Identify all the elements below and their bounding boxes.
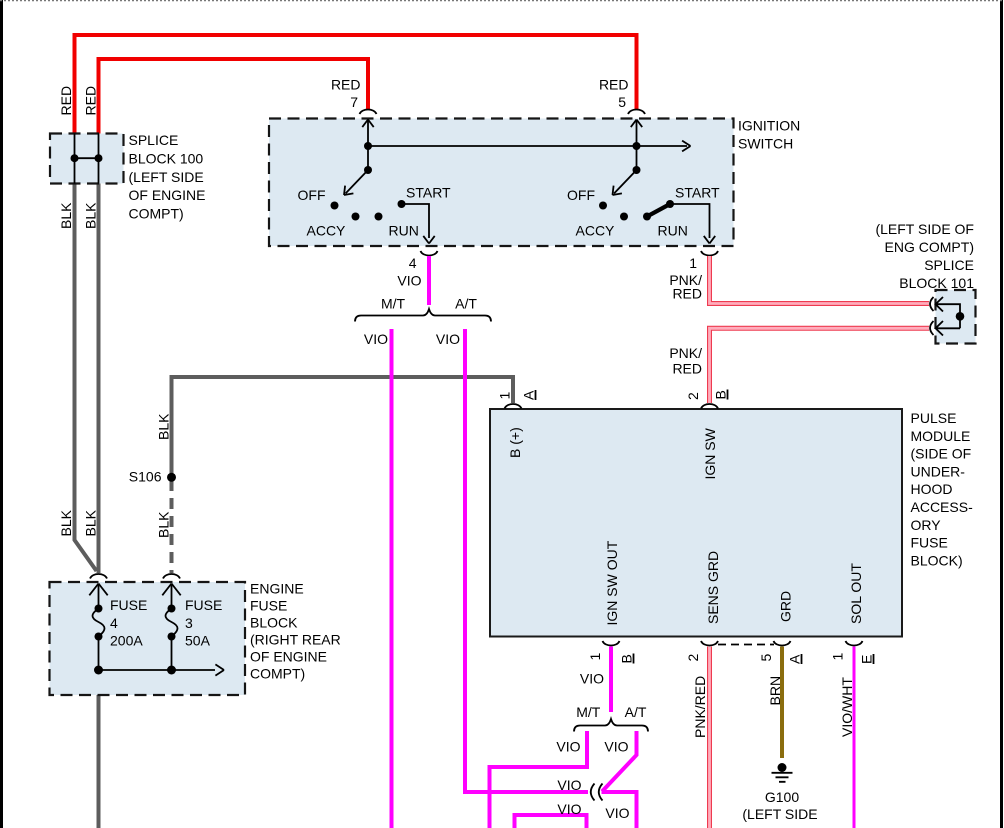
wire RED battery feed to ignition pin 7 [99,59,369,134]
svg-text:SWITCH: SWITCH [738,136,793,152]
svg-text:BLK: BLK [156,511,172,538]
svg-text:4: 4 [409,255,417,271]
ignition switch box [269,119,734,247]
svg-text:RED: RED [599,77,629,93]
connector module pin 1 (SOL OUT) [846,641,863,646]
svg-text:RUN: RUN [389,223,419,239]
svg-text:A/T: A/T [625,704,647,720]
svg-text:E: E [859,655,875,664]
wire VIO A/T branch down and right to inline connector [465,329,588,792]
fuse block output bus arrow [99,669,216,671]
svg-text:M/T: M/T [576,704,601,720]
svg-text:RUN: RUN [658,223,688,239]
labels M/T A/T upper [381,296,477,312]
svg-text:RED: RED [672,286,702,302]
connector module pin 5 (GRD) [774,641,791,646]
svg-text:FUSE: FUSE [911,535,948,551]
svg-text:VIO: VIO [557,801,581,817]
wire BLK fuse block output to bottom [97,672,101,828]
svg-text:S106: S106 [129,469,162,485]
svg-text:3: 3 [185,615,193,631]
svg-text:(LEFT SIDE: (LEFT SIDE [129,169,204,185]
labels left switch positions [298,185,452,239]
svg-text:ACCESS-: ACCESS- [911,499,974,515]
svg-text:50A: 50A [185,633,211,649]
brace M/T A/T lower [574,719,648,732]
svg-text:SPLICE: SPLICE [129,132,179,148]
svg-text:7: 7 [350,94,358,110]
labels right switch positions [567,185,720,239]
svg-text:B: B [713,390,729,399]
svg-text:BLOCK 101: BLOCK 101 [899,275,974,291]
connector ignition pin 5 [628,110,645,115]
svg-text:(RIGHT REAR: (RIGHT REAR [250,632,341,648]
svg-text:SENS GRD: SENS GRD [705,551,721,624]
fuse 4 200A [89,584,107,675]
svg-text:A: A [521,390,537,400]
svg-text:VIO/WHT: VIO/WHT [839,677,855,737]
svg-text:SPLICE: SPLICE [924,257,974,273]
svg-text:BLK: BLK [83,202,99,229]
connector module pin 2 (SENS GRD) [701,641,718,646]
svg-text:RED: RED [58,86,74,116]
svg-text:BLOCK 100: BLOCK 100 [129,150,204,166]
splice block 101 [930,290,976,344]
svg-text:PNK/: PNK/ [669,345,702,361]
svg-text:SOL OUT: SOL OUT [848,563,864,624]
label RED 5 [599,77,629,111]
connector ignition pin 1 [701,251,718,256]
svg-text:A/T: A/T [455,296,477,312]
inline connector (( [591,784,603,801]
svg-text:2: 2 [685,392,701,400]
svg-text:VIO: VIO [364,331,388,347]
svg-text:A: A [787,654,803,664]
svg-text:FUSE: FUSE [250,598,287,614]
svg-text:START: START [675,185,720,201]
svg-text:VIO: VIO [604,739,628,755]
label SPLICE BLOCK 100 [129,132,206,222]
connector ignition pin 4 [421,251,438,256]
svg-text:1: 1 [497,392,513,400]
connector fuse 4 [90,574,107,579]
svg-text:5: 5 [758,654,774,662]
switch common bus with arrow [368,145,687,147]
svg-text:BLK: BLK [83,509,99,536]
engine fuse block box [50,582,246,695]
wire VIO lower A/T branch diagonal to inline connector [602,731,637,792]
svg-text:START: START [406,185,451,201]
connector fuse 3 [163,574,180,579]
svg-text:B: B [619,654,635,663]
svg-text:RED: RED [83,86,99,116]
svg-text:200A: 200A [110,633,143,649]
svg-text:1: 1 [830,653,846,661]
svg-text:VIO: VIO [557,777,581,793]
wire PNK/RED splice block 101 to pulse module pin B [710,328,930,403]
ground G100 [772,763,793,782]
label SPLICE BLOCK 101 [875,221,974,291]
label PNK/RED lower [669,345,702,377]
wire BLK splice100 right to fuse 4 [97,184,101,574]
label RED 7 [331,77,361,111]
svg-text:(LEFT SIDE OF: (LEFT SIDE OF [875,221,974,237]
svg-text:VIO: VIO [397,273,421,289]
svg-text:(SIDE OF: (SIDE OF [911,446,972,462]
dashed connector link pin2-pin5 [718,644,774,646]
svg-text:4: 4 [110,615,118,631]
label G100 (LEFT SIDE [742,789,817,822]
fuse 3 50A [162,584,180,675]
wire BLK dashed S106 to fuse 3 [170,480,174,573]
svg-text:VIO: VIO [436,331,460,347]
svg-text:B (+): B (+) [507,427,523,458]
pulse module box [490,409,902,637]
label IGNITION SWITCH [738,118,800,152]
svg-text:BLOCK: BLOCK [250,615,298,631]
svg-text:5: 5 [618,94,626,110]
svg-text:HOOD: HOOD [911,481,953,497]
frame border left [0,0,3,828]
brace M/T A/T upper [355,309,491,322]
svg-text:(LEFT SIDE: (LEFT SIDE [742,806,817,822]
svg-text:BRN: BRN [767,676,783,706]
svg-text:M/T: M/T [381,296,406,312]
svg-text:OF ENGINE: OF ENGINE [250,649,327,665]
wire VIO lower M/T branch [490,731,588,828]
svg-text:UNDER-: UNDER- [911,463,966,479]
svg-text:PULSE: PULSE [911,410,957,426]
svg-text:IGNITION: IGNITION [738,118,800,134]
svg-text:COMPT): COMPT) [250,666,305,682]
labels M/T A/T lower [576,704,647,720]
label PULSE MODULE (SIDE OF UNDER-HOOD ACCESSORY FUSE BLOCK) [911,410,974,568]
svg-text:GRD: GRD [778,591,794,622]
splice block 100 [50,134,124,184]
wire BLK B(+) feed to pulse module pin A [172,377,514,477]
svg-text:OF ENGINE: OF ENGINE [129,187,206,203]
svg-text:BLOCK): BLOCK) [911,552,963,568]
wire VIO/WHT module SOL OUT to bottom [853,647,856,828]
svg-text:VIO: VIO [605,805,629,821]
label ENGINE FUSE BLOCK [250,581,341,682]
svg-text:G100: G100 [765,789,799,805]
connector module pin A [505,404,522,409]
svg-text:COMPT): COMPT) [129,206,184,222]
svg-text:RED: RED [331,77,361,93]
wire VIO from inline connector to bottom [602,792,637,828]
svg-text:PNK/RED: PNK/RED [692,676,708,738]
svg-text:1: 1 [587,653,603,661]
pin B labels 2 / B [685,390,729,401]
frame border top (dotted) [0,0,1003,2]
svg-text:ENGINE: ENGINE [250,581,304,597]
svg-text:ENG COMPT): ENG COMPT) [885,239,974,255]
connector module pin B [701,404,718,409]
wire VIO M/T branch to bottom [390,329,394,828]
svg-text:2: 2 [685,654,701,662]
wire VIO module IGN SW OUT [609,647,613,713]
wire RED battery feed to ignition pin 5 [75,35,637,134]
label PNK/RED upper [669,272,702,302]
svg-text:OFF: OFF [298,187,326,203]
svg-text:1: 1 [689,255,697,271]
wire PNK/RED module SENS GRD to bottom [707,647,712,828]
svg-text:FUSE: FUSE [185,597,222,613]
svg-text:VIO: VIO [580,671,604,687]
right ignition switch contacts (START bridge) [599,120,715,244]
left ignition switch contacts [331,120,435,244]
wire BLK splice100 left to fuse 4 [75,184,97,572]
svg-text:RED: RED [672,361,702,377]
svg-text:IGN SW OUT: IGN SW OUT [604,540,620,625]
svg-text:ACCY: ACCY [307,223,347,239]
wire BRN module GRD to ground [780,647,784,759]
svg-text:OFF: OFF [567,187,595,203]
svg-text:MODULE: MODULE [911,428,971,444]
svg-text:BLK: BLK [58,509,74,536]
wire VIO bottom stub [515,815,587,828]
frame border right [1000,0,1003,828]
svg-text:ACCY: ACCY [576,223,616,239]
svg-text:ORY: ORY [911,517,942,533]
svg-text:IGN SW: IGN SW [702,427,718,479]
wire VIO ignition pin 4 [427,256,431,305]
svg-text:VIO: VIO [556,739,580,755]
svg-text:BLK: BLK [156,413,172,440]
labels FUSE 3 50A [185,597,222,649]
connector ignition pin 7 [360,110,377,115]
pin A labels 1 / A [497,390,537,400]
splice S106 [167,473,176,482]
svg-text:BLK: BLK [58,202,74,229]
labels FUSE 4 200A [110,597,147,649]
connector module pin 1 (IGN SW OUT) [603,641,620,646]
wire PNK/RED ignition to splice block 101 [710,256,930,304]
svg-text:FUSE: FUSE [110,597,147,613]
